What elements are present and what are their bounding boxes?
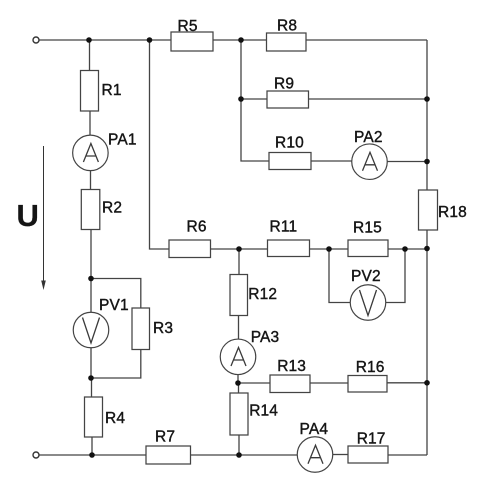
wire top R5 to R8 xyxy=(213,39,267,41)
U source arrow xyxy=(43,146,45,281)
wire PA3 to node xyxy=(237,375,239,383)
wire R15 to right vertical xyxy=(388,248,427,250)
resistor R15 xyxy=(348,240,388,257)
voltmeter PV1 xyxy=(73,312,109,348)
wire PV2 branch right xyxy=(386,249,405,303)
wire R13 to R16 xyxy=(310,382,348,384)
resistor R8 xyxy=(267,33,307,51)
resistor R1 xyxy=(81,71,99,112)
svg-text:PA1: PA1 xyxy=(108,131,137,148)
svg-text:R16: R16 xyxy=(356,359,385,376)
ammeter PA4 xyxy=(297,437,333,473)
wire R10 to PA2 xyxy=(311,160,352,162)
wire right vertical below R18 xyxy=(426,230,428,455)
wire node to PV1 xyxy=(90,279,92,313)
svg-text:R18: R18 xyxy=(438,204,467,221)
wire PA1 to R2 xyxy=(90,171,92,190)
svg-text:R6: R6 xyxy=(187,218,207,235)
svg-text:R12: R12 xyxy=(248,286,277,303)
node bottom wire / R14 xyxy=(236,452,242,458)
node R9 left xyxy=(238,96,244,102)
svg-text:R17: R17 xyxy=(357,430,386,447)
resistor R6 xyxy=(169,240,211,258)
wire R9 right xyxy=(309,98,428,100)
wire top from terminal to R5 xyxy=(39,39,171,41)
node top wire / middle vertical xyxy=(147,37,153,43)
svg-text:R11: R11 xyxy=(270,218,298,235)
wire R6 to node R12 xyxy=(211,248,268,250)
resistor R14 xyxy=(230,393,248,435)
voltmeter PV2 xyxy=(350,285,386,321)
node R6 right / R12 xyxy=(236,246,242,252)
ammeter PA3 xyxy=(220,339,256,375)
resistor R10 xyxy=(269,153,311,170)
resistor R12 xyxy=(230,275,248,316)
svg-text:PA3: PA3 xyxy=(251,329,280,346)
node PA3 bottom / R13 / R14 xyxy=(235,380,241,386)
node top wire / R1 branch xyxy=(86,37,92,43)
wire node to R12 xyxy=(238,249,240,275)
svg-text:R8: R8 xyxy=(277,17,297,34)
wire R7 to PA4 xyxy=(191,454,298,456)
svg-text:R1: R1 xyxy=(102,82,122,99)
resistor R5 xyxy=(171,32,213,51)
node R15 right / PV2 right xyxy=(402,246,408,252)
node R15 row / right vertical xyxy=(424,246,430,252)
wire R4 to bottom xyxy=(91,437,93,455)
resistor R9 xyxy=(267,91,309,108)
wire PV1 to node xyxy=(90,348,92,378)
node PA2 right xyxy=(424,159,430,165)
wire R16 to right vertical xyxy=(387,382,427,384)
ammeter PA1 xyxy=(73,135,109,171)
svg-text:R13: R13 xyxy=(277,358,306,375)
node R11 right / PV2 left xyxy=(326,246,332,252)
wire R11 to R15 xyxy=(310,248,349,250)
svg-text:R10: R10 xyxy=(275,135,304,152)
terminal top-left xyxy=(33,37,39,43)
resistor R11 xyxy=(268,240,310,257)
ammeter PA2 xyxy=(352,144,388,180)
wire bottom terminal to R7 xyxy=(39,454,146,456)
svg-text:R15: R15 xyxy=(353,219,382,236)
resistor R18 xyxy=(419,190,438,230)
resistor R3 xyxy=(132,308,150,350)
svg-text:R2: R2 xyxy=(102,199,122,216)
wire R13 row left xyxy=(238,382,270,384)
resistor R7 xyxy=(146,446,191,464)
wire R1 to PA1 xyxy=(89,111,91,135)
node bottom wire / R4 xyxy=(89,452,95,458)
wire R9 row xyxy=(241,98,267,100)
svg-text:R9: R9 xyxy=(274,75,294,92)
node PV1 top xyxy=(88,276,94,282)
svg-text:PA4: PA4 xyxy=(300,421,329,438)
wire node to R14 xyxy=(238,383,240,393)
wire R3 branch bottom xyxy=(91,350,141,379)
resistor R17 xyxy=(348,446,388,463)
svg-text:PA2: PA2 xyxy=(354,129,383,146)
svg-text:R4: R4 xyxy=(105,410,125,427)
wire R12 to PA3 xyxy=(238,316,240,340)
node R16 right xyxy=(424,380,430,386)
resistor R16 xyxy=(348,376,387,393)
wire R2 to node PV1 top xyxy=(90,230,92,279)
wire middle vertical to R6 xyxy=(150,40,170,249)
terminal bottom-left xyxy=(33,452,39,458)
node top wire / R5 right xyxy=(238,37,244,43)
wire R14 to bottom wire xyxy=(238,435,240,455)
svg-text:U: U xyxy=(17,198,40,233)
wire PV2 branch left xyxy=(329,249,350,303)
wire right vertical upper xyxy=(426,40,428,190)
svg-text:PV1: PV1 xyxy=(99,297,129,314)
svg-text:R14: R14 xyxy=(249,402,278,419)
wire bottom R17 to right corner xyxy=(388,454,427,456)
node PV1 bottom xyxy=(88,375,94,381)
resistor R2 xyxy=(81,190,100,230)
resistor R4 xyxy=(85,397,103,437)
svg-text:PV2: PV2 xyxy=(351,268,381,285)
svg-text:R7: R7 xyxy=(155,428,175,445)
wire node to R4 xyxy=(91,378,93,397)
node R9 right xyxy=(424,96,430,102)
resistor R13 xyxy=(270,375,310,393)
svg-text:R5: R5 xyxy=(178,18,198,35)
wire R5R8 vertical to R9 R10 xyxy=(241,40,269,161)
wire PA4 to R17 xyxy=(333,454,348,456)
wire R3 branch top xyxy=(91,279,141,309)
wire left branch junction to R1 xyxy=(89,40,91,71)
wire top R8 to right corner xyxy=(306,39,427,41)
wire PA2 to right vertical xyxy=(387,161,427,163)
svg-text:R3: R3 xyxy=(153,320,173,337)
